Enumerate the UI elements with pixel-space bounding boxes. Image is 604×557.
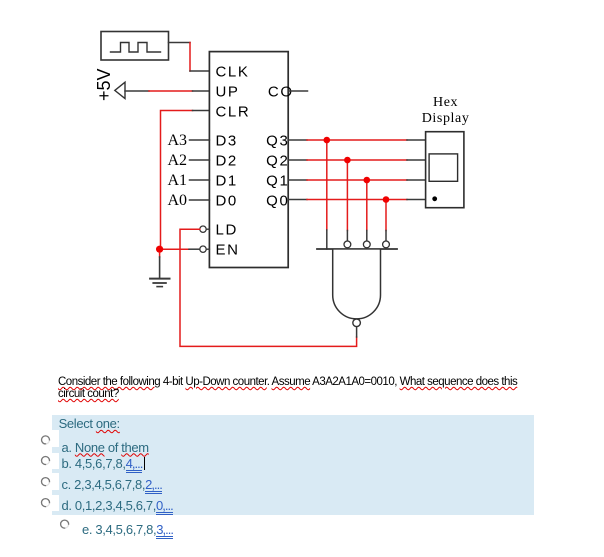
junction Q1 [364, 177, 371, 184]
svg-text:Q3: Q3 [266, 132, 289, 149]
svg-text:UP: UP [216, 83, 240, 100]
option b [62, 456, 143, 471]
pin LD stub [206, 228, 209, 230]
svg-text:D0: D0 [216, 192, 238, 209]
NAND output bubble [353, 319, 361, 327]
clock source [101, 32, 169, 61]
node A3 [167, 132, 187, 209]
pin EN stub [206, 248, 209, 250]
ground [150, 253, 169, 287]
radio cell c [40, 473, 59, 490]
+5V supply [94, 68, 125, 101]
wire EN to ground junction [160, 248, 200, 250]
hex display DS1 [422, 95, 470, 208]
wire A0 to D0 [190, 199, 210, 201]
wire A2 to D2 [190, 159, 210, 161]
wire A1 to D1 [190, 179, 210, 181]
wire Q0 to NAND input [385, 200, 387, 242]
svg-text:LD: LD [216, 222, 238, 239]
svg-text:CLK: CLK [216, 63, 250, 80]
pin label CLK [216, 63, 294, 258]
svg-text:D2: D2 [216, 152, 238, 169]
radio button a [42, 436, 50, 444]
radio cell b [40, 453, 59, 470]
junction ground node [156, 246, 163, 253]
radio button d [42, 499, 50, 507]
option e [82, 522, 173, 537]
wire Q2 to NAND input [346, 160, 348, 241]
wire NAND output to LD [180, 229, 357, 346]
svg-text:EN: EN [216, 242, 240, 259]
question text [58, 377, 525, 401]
svg-text:A1: A1 [167, 172, 187, 189]
counter U1 [209, 52, 288, 268]
NAND input bubble Q0 [383, 241, 390, 248]
svg-text:+5V: +5V [94, 68, 114, 101]
radio button c [42, 478, 50, 486]
radio button b [42, 457, 50, 465]
NAND input bubble Q2 [344, 241, 351, 248]
wire Q2 to display [288, 159, 425, 161]
radio cell d [40, 495, 59, 512]
svg-text:CLR: CLR [216, 103, 251, 120]
wire Q0 to display [288, 199, 425, 201]
wire Q1 to NAND input [366, 180, 368, 241]
wire CLR to ground net [161, 111, 210, 250]
option c [62, 477, 162, 492]
svg-text:Hex: Hex [433, 95, 458, 110]
svg-text:CO: CO [268, 83, 294, 100]
svg-text:A3: A3 [167, 132, 187, 149]
svg-text:D3: D3 [216, 132, 238, 149]
AND gate U2 [317, 249, 397, 319]
svg-text:A0: A0 [167, 192, 187, 209]
wire clock to CLK pin [169, 43, 210, 72]
svg-text:Q0: Q0 [266, 192, 289, 209]
junction Q0 [383, 196, 390, 203]
wire Q3 to display [288, 139, 425, 141]
wire +5V to UP pin [125, 90, 209, 92]
svg-text:Display: Display [422, 111, 470, 126]
svg-text:A2: A2 [167, 152, 187, 169]
svg-text:Q2: Q2 [266, 152, 289, 169]
option a [62, 440, 149, 455]
pin LD bubble [200, 226, 206, 232]
svg-text:D1: D1 [216, 172, 238, 189]
pin EN bubble [200, 246, 206, 252]
NAND input bubble Q1 [363, 241, 370, 248]
option d [62, 498, 173, 513]
wire CO output [288, 90, 307, 92]
answer panel background [52, 415, 534, 515]
wire A3 to D3 [190, 139, 210, 141]
radio button e [61, 520, 69, 528]
wire Q1 to display [288, 179, 425, 181]
wire Q3 to NAND input [326, 140, 328, 249]
svg-text:Q1: Q1 [266, 172, 289, 189]
junction Q3 [324, 137, 331, 144]
select one label [59, 416, 120, 431]
text caret [144, 457, 145, 470]
radio cell a [40, 430, 59, 447]
junction Q2 [344, 157, 351, 164]
